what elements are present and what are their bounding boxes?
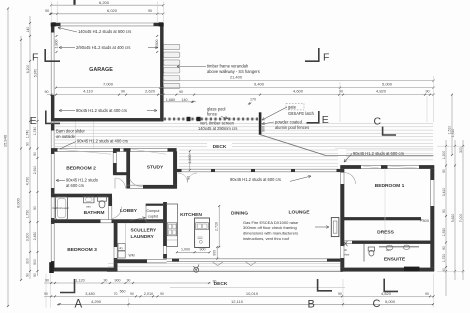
svg-text:STUDY: STUDY bbox=[147, 165, 164, 171]
svg-text:300: 300 bbox=[26, 258, 30, 264]
svg-text:E: E bbox=[30, 115, 37, 127]
svg-text:GARAGE: GARAGE bbox=[89, 67, 113, 73]
svg-text:170: 170 bbox=[250, 98, 256, 102]
svg-text:2,720: 2,720 bbox=[215, 222, 219, 231]
svg-text:LOBBY: LOBBY bbox=[120, 208, 138, 214]
svg-text:4,820: 4,820 bbox=[376, 89, 387, 94]
svg-text:9,400: 9,400 bbox=[254, 82, 265, 87]
svg-text:4,290: 4,290 bbox=[91, 299, 102, 304]
svg-text:Barn door slider: Barn door slider bbox=[56, 129, 86, 134]
svg-text:8,000: 8,000 bbox=[17, 198, 21, 208]
svg-text:140x45 at 290mm crs: 140x45 at 290mm crs bbox=[198, 126, 237, 131]
svg-text:90x45 H1.2 studs: 90x45 H1.2 studs bbox=[66, 178, 98, 183]
svg-text:3,300: 3,300 bbox=[26, 233, 30, 242]
svg-text:DINING: DINING bbox=[231, 210, 248, 216]
svg-text:70: 70 bbox=[114, 292, 118, 296]
svg-text:4,600: 4,600 bbox=[293, 89, 304, 94]
svg-text:90: 90 bbox=[179, 90, 183, 94]
svg-text:900: 900 bbox=[262, 126, 266, 132]
svg-text:G8SAFE latch: G8SAFE latch bbox=[288, 111, 315, 116]
svg-text:21,400: 21,400 bbox=[230, 75, 243, 80]
svg-text:90: 90 bbox=[425, 292, 429, 296]
svg-text:10,010: 10,010 bbox=[246, 291, 259, 296]
svg-text:C: C bbox=[374, 116, 382, 128]
svg-text:Comput: Comput bbox=[147, 209, 160, 213]
svg-text:KITCHEN: KITCHEN bbox=[180, 212, 202, 218]
svg-text:3,480: 3,480 bbox=[85, 292, 95, 296]
svg-text:90: 90 bbox=[442, 246, 446, 250]
svg-text:900: 900 bbox=[115, 278, 121, 282]
svg-text:90: 90 bbox=[339, 90, 343, 94]
svg-text:ENSUITE: ENSUITE bbox=[384, 256, 406, 262]
svg-text:DECK: DECK bbox=[213, 144, 227, 150]
svg-text:2,620: 2,620 bbox=[145, 89, 156, 94]
svg-text:instructions, vent thru roof: instructions, vent thru roof bbox=[243, 236, 290, 241]
svg-text:5,000: 5,000 bbox=[382, 82, 393, 87]
svg-text:SCULLERY: SCULLERY bbox=[131, 228, 157, 234]
svg-text:90: 90 bbox=[187, 176, 191, 180]
svg-text:above walkway - SS hangers: above walkway - SS hangers bbox=[207, 69, 260, 74]
svg-text:6,200: 6,200 bbox=[99, 0, 110, 5]
svg-text:1,740: 1,740 bbox=[26, 130, 30, 139]
svg-text:5,620: 5,620 bbox=[451, 214, 455, 223]
svg-text:shwr: shwr bbox=[344, 252, 350, 256]
svg-text:fence: fence bbox=[207, 112, 218, 117]
svg-text:90: 90 bbox=[45, 90, 49, 94]
svg-text:C: C bbox=[373, 298, 381, 310]
svg-text:F: F bbox=[32, 52, 38, 64]
svg-text:90x45 H1.2 studs at 600 crs: 90x45 H1.2 studs at 600 crs bbox=[353, 151, 404, 156]
svg-text:Gas Fire ESCEA DX1000 raise: Gas Fire ESCEA DX1000 raise bbox=[243, 220, 299, 225]
svg-text:timber frame verandah: timber frame verandah bbox=[207, 64, 249, 69]
svg-text:6,200: 6,200 bbox=[26, 65, 30, 74]
svg-text:LOUNGE: LOUNGE bbox=[289, 209, 311, 215]
svg-text:90: 90 bbox=[130, 292, 134, 296]
svg-text:1,740: 1,740 bbox=[33, 127, 37, 136]
svg-text:2,430: 2,430 bbox=[33, 232, 37, 241]
svg-text:1,720: 1,720 bbox=[442, 254, 446, 263]
svg-text:90: 90 bbox=[160, 292, 164, 296]
svg-text:15,940: 15,940 bbox=[3, 134, 8, 147]
svg-text:cupbd: cupbd bbox=[148, 215, 158, 219]
svg-text:300: 300 bbox=[459, 147, 463, 153]
svg-text:7,000: 7,000 bbox=[459, 214, 463, 223]
svg-text:1,730: 1,730 bbox=[26, 210, 30, 219]
svg-text:800: 800 bbox=[423, 218, 430, 223]
svg-text:4,110: 4,110 bbox=[83, 89, 93, 94]
svg-text:WM: WM bbox=[129, 254, 135, 258]
svg-text:90: 90 bbox=[33, 273, 37, 277]
svg-text:1,300: 1,300 bbox=[442, 151, 446, 160]
svg-text:1,120: 1,120 bbox=[75, 278, 85, 282]
svg-text:BEDROOM 2: BEDROOM 2 bbox=[66, 166, 96, 172]
svg-text:900: 900 bbox=[33, 259, 37, 265]
svg-text:90: 90 bbox=[121, 90, 125, 94]
svg-text:140x45 H1.2 studs at 600 crs: 140x45 H1.2 studs at 600 crs bbox=[78, 29, 131, 34]
svg-text:90: 90 bbox=[127, 278, 131, 282]
svg-text:van: van bbox=[86, 204, 91, 208]
svg-text:BEDROOM 3: BEDROOM 3 bbox=[67, 247, 97, 253]
svg-text:1,000: 1,000 bbox=[181, 248, 190, 252]
svg-text:90: 90 bbox=[45, 278, 49, 282]
svg-text:900: 900 bbox=[200, 248, 206, 252]
svg-text:300mm off floor check framing: 300mm off floor check framing bbox=[243, 225, 297, 230]
svg-text:1,530: 1,530 bbox=[442, 228, 446, 237]
svg-text:90: 90 bbox=[26, 273, 30, 277]
svg-text:5,970: 5,970 bbox=[34, 69, 38, 78]
svg-text:90x45 H1.2 studs at 600 crs: 90x45 H1.2 studs at 600 crs bbox=[230, 177, 281, 182]
svg-text:7,000: 7,000 bbox=[103, 82, 114, 87]
svg-text:A: A bbox=[75, 298, 83, 310]
svg-text:BATHRM: BATHRM bbox=[84, 210, 105, 216]
svg-text:12,110: 12,110 bbox=[231, 299, 244, 304]
svg-text:E: E bbox=[322, 114, 329, 126]
svg-text:6,020: 6,020 bbox=[107, 8, 118, 13]
svg-text:1,510: 1,510 bbox=[451, 129, 455, 138]
svg-text:90: 90 bbox=[338, 292, 342, 296]
svg-text:at 600 crs: at 600 crs bbox=[66, 183, 84, 188]
svg-text:140: 140 bbox=[182, 98, 188, 102]
svg-text:2,910: 2,910 bbox=[33, 166, 37, 175]
svg-text:DRESS: DRESS bbox=[377, 229, 395, 235]
svg-text:bath/shower: bath/shower bbox=[53, 206, 69, 210]
svg-text:2/90x45 H1.2 studs at 400 crs: 2/90x45 H1.2 studs at 400 crs bbox=[76, 45, 130, 50]
svg-text:90: 90 bbox=[33, 152, 37, 156]
svg-text:90: 90 bbox=[426, 90, 430, 94]
svg-text:140: 140 bbox=[26, 27, 30, 33]
svg-text:B: B bbox=[308, 299, 315, 311]
svg-text:2,010: 2,010 bbox=[144, 292, 154, 296]
svg-text:on outside: on outside bbox=[56, 134, 76, 139]
svg-text:900: 900 bbox=[213, 250, 217, 256]
svg-text:1,680: 1,680 bbox=[166, 98, 176, 102]
svg-text:3,410: 3,410 bbox=[442, 188, 446, 197]
svg-text:90: 90 bbox=[26, 142, 30, 146]
svg-text:90x45 H1.2 studs at 400 crs: 90x45 H1.2 studs at 400 crs bbox=[77, 139, 128, 144]
svg-text:BEDROOM 1: BEDROOM 1 bbox=[375, 183, 405, 189]
svg-text:vert. timber screen: vert. timber screen bbox=[200, 121, 235, 126]
svg-text:powder coated: powder coated bbox=[275, 120, 303, 125]
svg-text:alumin pool fences: alumin pool fences bbox=[275, 125, 309, 130]
svg-text:560: 560 bbox=[120, 290, 126, 294]
svg-text:90: 90 bbox=[442, 209, 446, 213]
svg-text:1,800: 1,800 bbox=[155, 40, 159, 49]
svg-text:90: 90 bbox=[33, 206, 37, 210]
svg-text:90: 90 bbox=[44, 292, 48, 296]
svg-text:5,000: 5,000 bbox=[385, 299, 396, 304]
svg-text:van: van bbox=[386, 248, 391, 252]
svg-text:90: 90 bbox=[148, 9, 152, 13]
svg-text:90x45 H1.2 studs at 400 crs: 90x45 H1.2 studs at 400 crs bbox=[76, 108, 127, 113]
svg-text:F: F bbox=[323, 52, 329, 64]
svg-text:4,730: 4,730 bbox=[26, 177, 30, 186]
svg-text:dry: dry bbox=[119, 246, 123, 250]
svg-text:1,800: 1,800 bbox=[55, 40, 59, 49]
svg-text:LAUNDRY: LAUNDRY bbox=[131, 234, 155, 240]
svg-text:90: 90 bbox=[104, 278, 108, 282]
svg-text:gate: gate bbox=[288, 105, 297, 110]
svg-text:90: 90 bbox=[213, 280, 217, 284]
svg-text:90: 90 bbox=[442, 169, 446, 173]
svg-text:dimensions with manufacturers: dimensions with manufacturers bbox=[243, 231, 298, 236]
svg-text:90: 90 bbox=[45, 9, 49, 13]
